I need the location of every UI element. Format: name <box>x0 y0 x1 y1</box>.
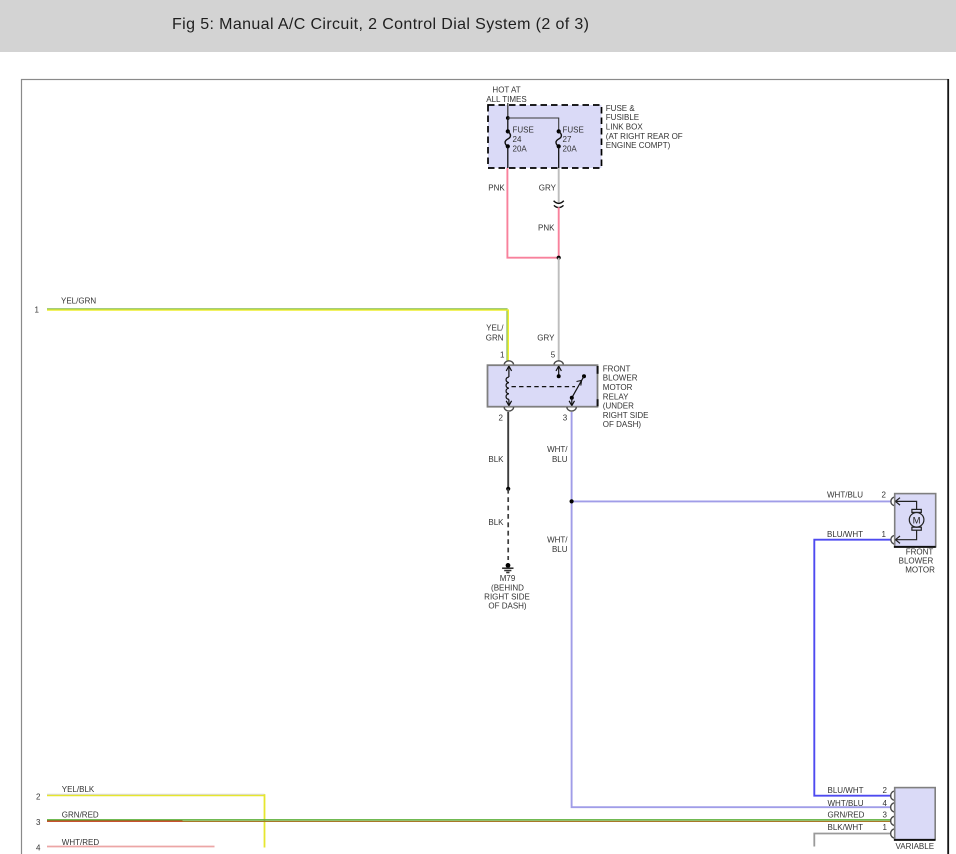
svg-text:GRY: GRY <box>537 333 555 342</box>
svg-text:3: 3 <box>563 413 568 422</box>
svg-text:FRONT: FRONT <box>603 364 631 373</box>
svg-text:M: M <box>913 515 921 526</box>
svg-text:BLK: BLK <box>488 455 504 464</box>
svg-text:LINK BOX: LINK BOX <box>606 123 644 132</box>
svg-text:1: 1 <box>35 306 40 315</box>
svg-text:MOTOR: MOTOR <box>905 566 935 575</box>
svg-text:WHT/: WHT/ <box>547 445 568 454</box>
svg-text:BLOWER: BLOWER <box>603 374 638 383</box>
svg-text:GRN/RED: GRN/RED <box>62 811 99 820</box>
svg-text:1: 1 <box>500 351 505 360</box>
svg-text:PNK: PNK <box>488 184 505 193</box>
svg-text:HOT AT: HOT AT <box>492 86 520 95</box>
svg-text:2: 2 <box>882 490 887 499</box>
svg-text:M79: M79 <box>500 574 516 583</box>
svg-text:OF DASH): OF DASH) <box>603 420 642 429</box>
svg-text:RELAY: RELAY <box>603 392 629 401</box>
svg-text:(UNDER: (UNDER <box>603 402 634 411</box>
svg-text:5: 5 <box>551 351 556 360</box>
svg-text:3: 3 <box>36 818 41 827</box>
svg-text:BLOWER: BLOWER <box>899 556 934 565</box>
svg-text:2: 2 <box>499 413 504 422</box>
svg-text:WHT/BLU: WHT/BLU <box>827 490 863 499</box>
svg-text:27: 27 <box>563 135 572 144</box>
svg-text:YEL/GRN: YEL/GRN <box>61 297 96 306</box>
svg-text:BLU: BLU <box>552 455 568 464</box>
svg-text:ALL TIMES: ALL TIMES <box>486 95 526 104</box>
svg-text:BLU/WHT: BLU/WHT <box>828 786 864 795</box>
svg-text:FUSIBLE: FUSIBLE <box>606 113 639 122</box>
svg-text:WHT/: WHT/ <box>547 535 568 544</box>
svg-text:ENGINE COMPT): ENGINE COMPT) <box>606 141 671 150</box>
svg-text:WHT/BLU: WHT/BLU <box>828 799 864 808</box>
svg-text:24: 24 <box>513 135 522 144</box>
svg-text:YEL/: YEL/ <box>486 324 504 333</box>
svg-text:BLU: BLU <box>552 545 568 554</box>
svg-text:FUSE: FUSE <box>563 125 584 134</box>
svg-text:OF DASH): OF DASH) <box>488 602 527 611</box>
svg-text:2: 2 <box>882 786 887 795</box>
svg-text:BLK/WHT: BLK/WHT <box>828 823 864 832</box>
svg-text:VARIABLE: VARIABLE <box>896 842 935 851</box>
svg-text:3: 3 <box>882 811 887 820</box>
svg-text:(BEHIND: (BEHIND <box>491 583 524 592</box>
svg-text:PNK: PNK <box>538 223 555 232</box>
svg-text:(AT RIGHT REAR OF: (AT RIGHT REAR OF <box>606 132 683 141</box>
svg-text:GRN/RED: GRN/RED <box>828 811 865 820</box>
svg-text:RIGHT SIDE: RIGHT SIDE <box>603 411 649 420</box>
svg-text:1: 1 <box>882 823 887 832</box>
svg-text:GRN: GRN <box>486 333 504 342</box>
svg-text:4: 4 <box>882 799 887 808</box>
svg-text:GRY: GRY <box>539 184 557 193</box>
svg-text:MOTOR: MOTOR <box>603 383 633 392</box>
svg-text:WHT/RED: WHT/RED <box>62 838 100 847</box>
svg-text:4: 4 <box>36 844 41 853</box>
svg-text:YEL/BLK: YEL/BLK <box>62 785 95 794</box>
svg-text:FUSE: FUSE <box>513 125 534 134</box>
svg-text:BLK: BLK <box>488 518 504 527</box>
svg-text:RIGHT SIDE: RIGHT SIDE <box>484 592 530 601</box>
svg-text:20A: 20A <box>513 145 528 154</box>
svg-text:2: 2 <box>36 793 41 802</box>
svg-text:1: 1 <box>882 530 887 539</box>
svg-text:FUSE &: FUSE & <box>606 104 636 113</box>
svg-text:20A: 20A <box>563 145 578 154</box>
svg-text:FRONT: FRONT <box>906 547 934 556</box>
svg-text:BLU/WHT: BLU/WHT <box>827 530 863 539</box>
